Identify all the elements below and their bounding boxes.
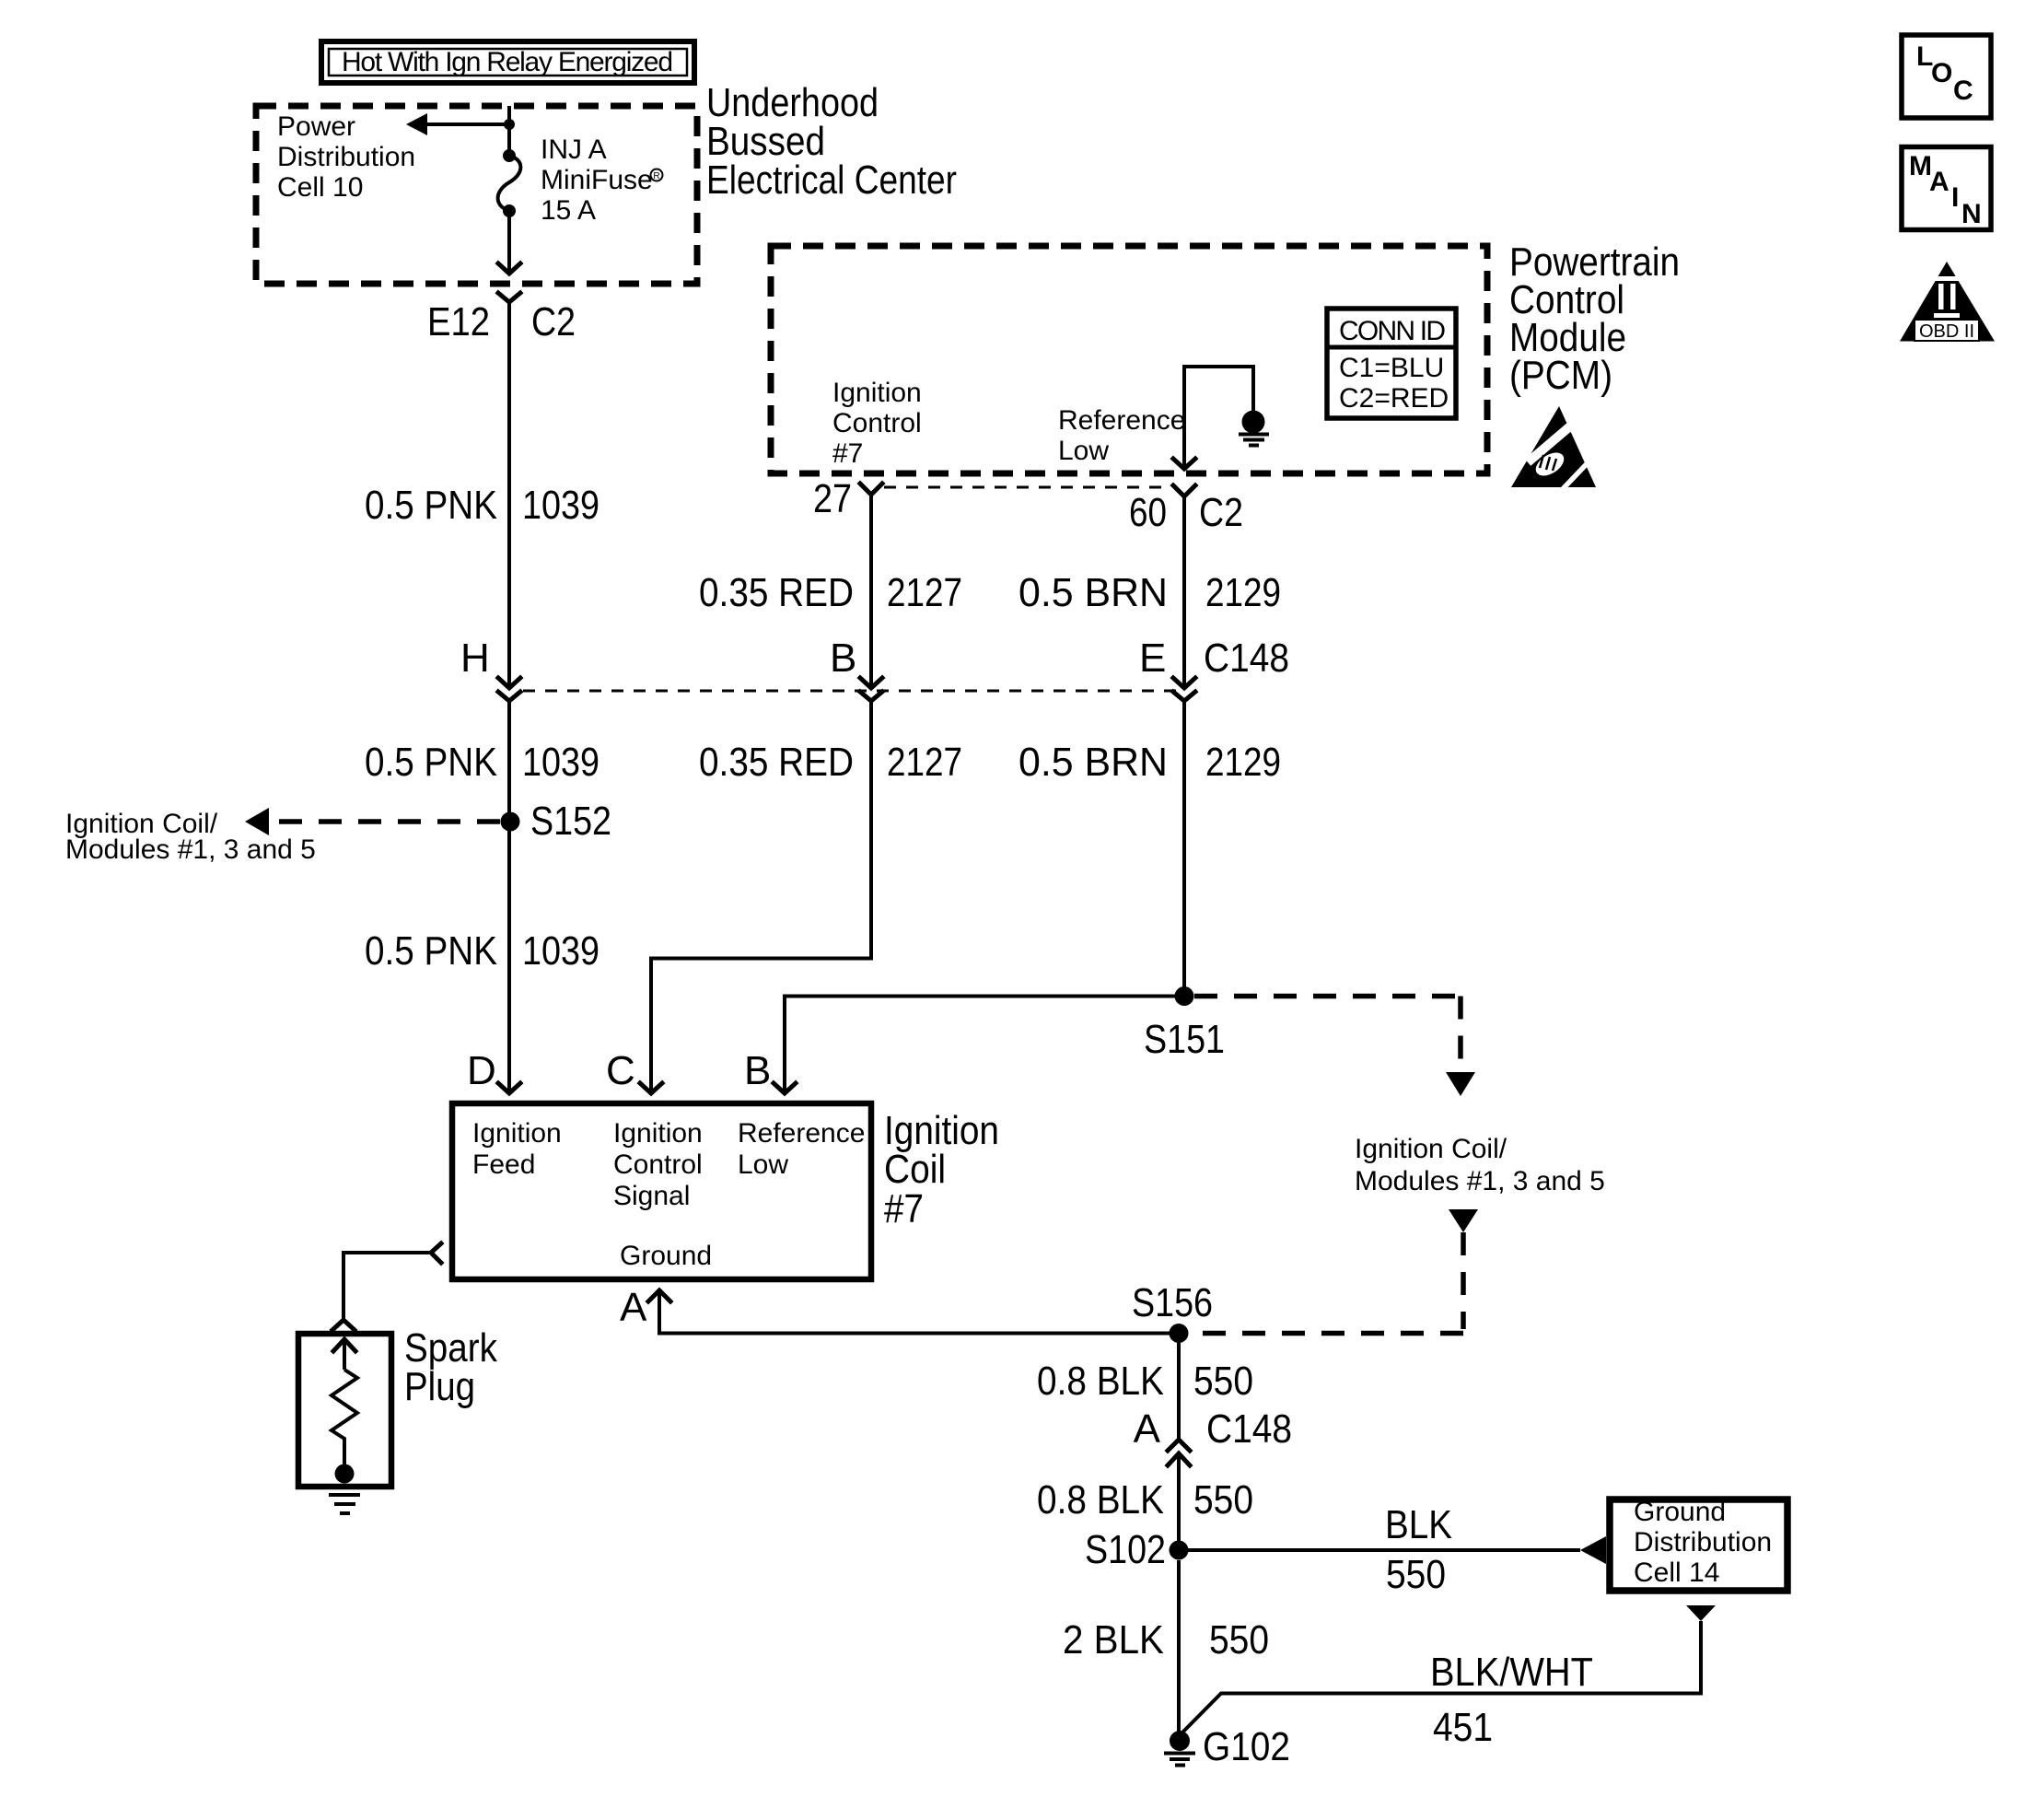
- svg-text:550: 550: [1209, 1617, 1269, 1662]
- svg-text:Control: Control: [613, 1149, 703, 1180]
- svg-text:1039: 1039: [522, 740, 599, 785]
- svg-text:E12: E12: [427, 299, 490, 344]
- svg-text:C2: C2: [1199, 490, 1243, 535]
- svg-text:S156: S156: [1132, 1280, 1213, 1325]
- svg-text:N: N: [1961, 199, 1982, 229]
- svg-text:0.35 RED: 0.35 RED: [699, 570, 854, 615]
- svg-text:2 BLK: 2 BLK: [1063, 1617, 1164, 1662]
- svg-text:2127: 2127: [887, 740, 962, 785]
- svg-text:Reference: Reference: [1058, 405, 1185, 436]
- svg-text:S102: S102: [1085, 1527, 1166, 1572]
- svg-text:S152: S152: [530, 799, 611, 844]
- svg-text:0.8 BLK: 0.8 BLK: [1037, 1477, 1164, 1522]
- svg-text:Coil: Coil: [884, 1147, 946, 1192]
- svg-text:E: E: [1139, 636, 1166, 681]
- svg-text:451: 451: [1433, 1705, 1493, 1750]
- svg-text:Hot With Ign Relay Energized: Hot With Ign Relay Energized: [342, 47, 673, 77]
- svg-text:0.5 PNK: 0.5 PNK: [365, 483, 497, 528]
- svg-text:0.5 BRN: 0.5 BRN: [1018, 740, 1168, 785]
- svg-text:INJ A: INJ A: [541, 134, 607, 165]
- svg-text:Cell 10: Cell 10: [277, 172, 363, 203]
- svg-text:60: 60: [1129, 490, 1167, 535]
- svg-text:1039: 1039: [522, 928, 599, 974]
- svg-text:CONN ID: CONN ID: [1339, 316, 1446, 346]
- svg-text:MiniFuse: MiniFuse: [541, 165, 653, 195]
- svg-text:A: A: [1929, 167, 1950, 197]
- svg-text:27: 27: [813, 476, 852, 521]
- svg-text:G102: G102: [1203, 1724, 1290, 1769]
- svg-text:C2=RED: C2=RED: [1339, 383, 1449, 414]
- svg-text:2129: 2129: [1205, 570, 1281, 615]
- svg-text:C1=BLU: C1=BLU: [1339, 353, 1444, 383]
- svg-text:B: B: [830, 636, 856, 681]
- svg-text:A: A: [1134, 1406, 1161, 1452]
- svg-text:Feed: Feed: [472, 1149, 535, 1180]
- svg-text:(PCM): (PCM): [1509, 353, 1612, 398]
- svg-text:C: C: [1953, 76, 1973, 106]
- svg-text:#7: #7: [832, 438, 863, 469]
- svg-text:Ignition: Ignition: [832, 378, 922, 408]
- svg-text:O: O: [1931, 58, 1952, 88]
- svg-text:Ignition Coil/: Ignition Coil/: [1355, 1134, 1507, 1164]
- svg-text:OBD II: OBD II: [1919, 321, 1974, 342]
- svg-text:0.8 BLK: 0.8 BLK: [1037, 1359, 1164, 1404]
- svg-text:0.5 PNK: 0.5 PNK: [365, 740, 497, 785]
- svg-text:R: R: [653, 171, 659, 181]
- svg-text:Modules #1, 3 and 5: Modules #1, 3 and 5: [65, 834, 316, 865]
- svg-text:Distribution: Distribution: [277, 142, 415, 172]
- svg-text:550: 550: [1193, 1477, 1253, 1522]
- svg-text:Signal: Signal: [613, 1181, 690, 1211]
- svg-text:Low: Low: [738, 1149, 788, 1180]
- svg-text:S151: S151: [1144, 1017, 1225, 1062]
- svg-text:H: H: [460, 636, 490, 681]
- svg-text:1039: 1039: [522, 483, 599, 528]
- svg-text:Ignition: Ignition: [613, 1118, 703, 1149]
- svg-text:C148: C148: [1204, 636, 1289, 681]
- svg-text:550: 550: [1386, 1552, 1446, 1597]
- svg-text:15 A: 15 A: [541, 195, 596, 226]
- svg-text:BLK: BLK: [1385, 1502, 1452, 1547]
- svg-text:Electrical Center: Electrical Center: [706, 157, 957, 203]
- svg-text:Distribution: Distribution: [1634, 1527, 1772, 1557]
- svg-text:Ignition: Ignition: [472, 1118, 562, 1149]
- svg-text:0.5 PNK: 0.5 PNK: [365, 928, 497, 974]
- svg-text:B: B: [744, 1048, 771, 1093]
- svg-text:A: A: [620, 1285, 647, 1330]
- svg-text:0.5 BRN: 0.5 BRN: [1018, 570, 1168, 615]
- svg-text:C: C: [606, 1048, 635, 1093]
- svg-text:Ground: Ground: [1634, 1497, 1726, 1527]
- svg-text:#7: #7: [884, 1186, 924, 1231]
- svg-text:C148: C148: [1206, 1406, 1292, 1452]
- svg-text:2127: 2127: [887, 570, 962, 615]
- svg-text:I: I: [1951, 182, 1959, 213]
- svg-text:Power: Power: [277, 111, 355, 142]
- svg-text:550: 550: [1193, 1359, 1253, 1404]
- svg-text:0.35 RED: 0.35 RED: [699, 740, 854, 785]
- svg-text:D: D: [467, 1048, 496, 1093]
- svg-text:Control: Control: [832, 408, 922, 438]
- svg-text:Plug: Plug: [404, 1364, 475, 1409]
- svg-text:Reference: Reference: [738, 1118, 865, 1149]
- svg-text:BLK/WHT: BLK/WHT: [1430, 1650, 1593, 1695]
- svg-text:Cell 14: Cell 14: [1634, 1557, 1719, 1588]
- svg-text:2129: 2129: [1205, 740, 1281, 785]
- svg-text:Low: Low: [1058, 436, 1109, 466]
- svg-text:Modules #1, 3 and 5: Modules #1, 3 and 5: [1355, 1166, 1605, 1196]
- svg-text:Ground: Ground: [620, 1241, 712, 1271]
- svg-text:C2: C2: [531, 299, 576, 344]
